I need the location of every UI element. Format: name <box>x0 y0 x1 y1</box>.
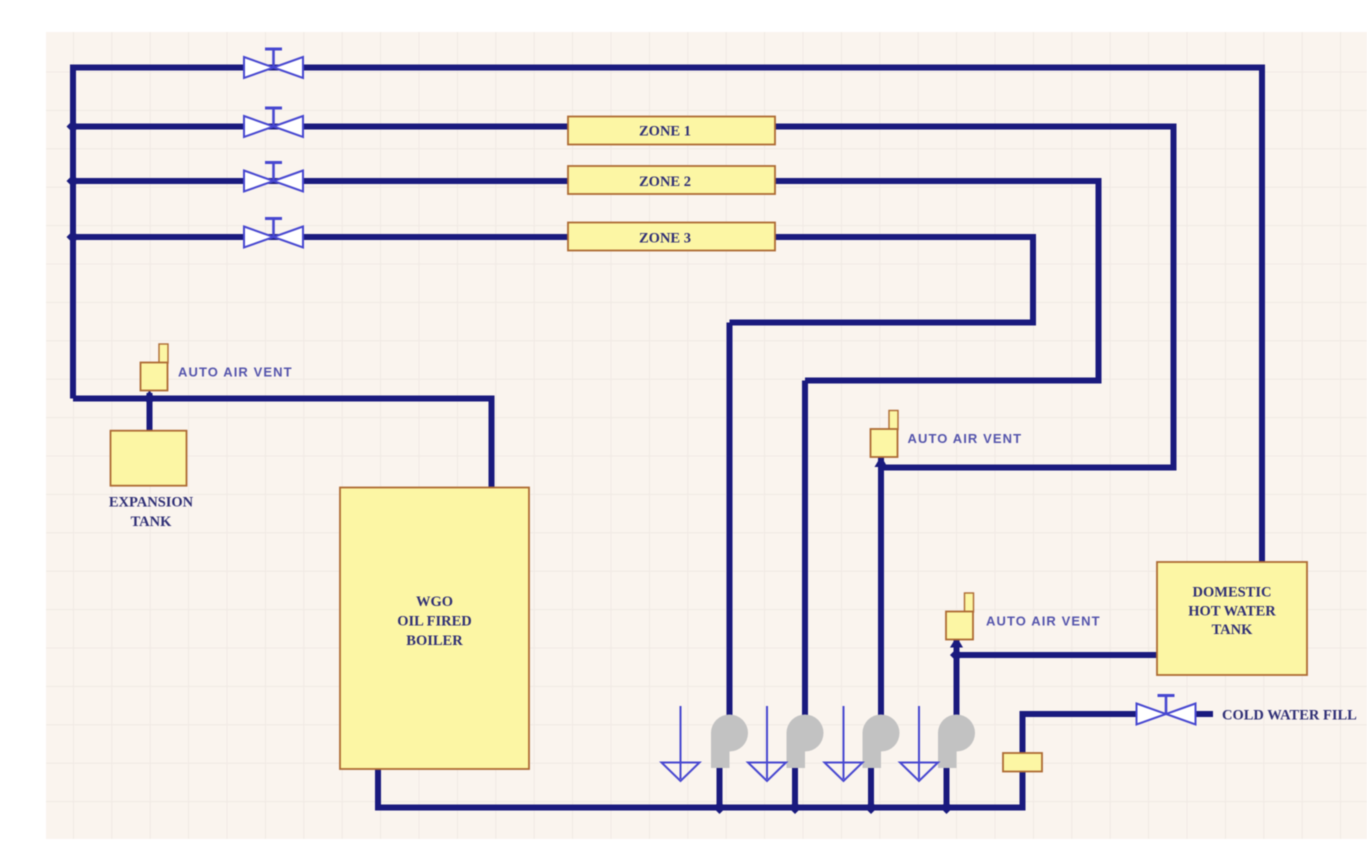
svg-text:EXPANSION: EXPANSION <box>109 495 194 511</box>
wire domestic tank feed <box>957 652 1158 658</box>
wire expansion tank drop <box>147 394 153 431</box>
node header / zone 3 junction <box>67 231 80 244</box>
arrowhead into air vent 2 <box>875 456 888 467</box>
wire boiler supply from header <box>73 399 492 489</box>
wire pump 1 inlet drop <box>727 323 733 719</box>
wire pump 4 inlet drop / air vent 3 riser <box>954 637 960 718</box>
wire pump 2 outlet drop <box>792 768 798 808</box>
pump circulator 3 <box>863 715 900 769</box>
wire pump 4 outlet drop <box>944 768 950 808</box>
svg-text:AUTO AIR VENT: AUTO AIR VENT <box>908 431 1023 446</box>
auto air vent 1 (expansion tank) <box>141 344 293 391</box>
pump circulator 4 <box>938 715 975 769</box>
wire boiler return bus + cold water fill riser <box>378 714 1138 808</box>
pump circulator 1 <box>711 715 748 769</box>
wire pump 1 outlet drop <box>717 768 723 808</box>
flow arrow before pump 1 <box>662 706 700 781</box>
wire zone 3 feed branch <box>73 234 568 240</box>
inline fitting on cold water riser <box>1003 753 1042 772</box>
auto air vent 3 (domestic tank feed) <box>946 593 1101 640</box>
svg-text:AUTO AIR VENT: AUTO AIR VENT <box>986 614 1101 629</box>
wire pump 3 outlet drop <box>868 768 874 808</box>
zone 3 box <box>568 223 775 251</box>
wire zone 3 return <box>730 237 1034 323</box>
valve zone 1 <box>244 108 303 137</box>
wire zone 2 return <box>775 181 1099 381</box>
node air vent 1 / expansion tank junction <box>143 392 156 405</box>
wire zone 2 feed branch <box>73 178 568 184</box>
node header / zone 1 junction <box>67 120 80 133</box>
wire pump 3 inlet drop <box>878 457 884 719</box>
wire main supply header + domestic hot water riser <box>73 68 1262 563</box>
pump circulator 2 <box>787 715 824 769</box>
wire air vent 1 riser <box>147 393 153 399</box>
node tank feed / pump 4 junction <box>950 649 963 662</box>
node pump 4 / bus junction <box>940 801 953 814</box>
wire cold water fill stub <box>1195 711 1213 717</box>
svg-text:ZONE 1: ZONE 1 <box>639 124 691 140</box>
flow arrow before pump 2 <box>748 706 786 781</box>
valve cold water fill <box>1137 696 1196 725</box>
node pump 2 / bus junction <box>789 801 802 814</box>
domestic hot water tank <box>1157 562 1307 675</box>
valve zone 2 <box>244 163 303 192</box>
svg-text:WGO: WGO <box>416 594 453 610</box>
valve main header <box>244 49 303 78</box>
boiler WGO <box>340 488 529 770</box>
svg-text:COLD WATER FILL: COLD WATER FILL <box>1222 708 1357 724</box>
valve zone 3 <box>244 219 303 248</box>
wire zone 1 feed branch <box>73 124 568 130</box>
node pump 3 / bus junction <box>865 801 878 814</box>
arrowhead into air vent 1 <box>143 390 156 401</box>
auto air vent 2 (zone 1 return) <box>871 411 1023 458</box>
flow arrow before pump 4 <box>900 706 938 781</box>
wire zone 1 return <box>775 127 1174 468</box>
arrowhead into air vent 3 <box>950 637 963 648</box>
flow arrow before pump 3 <box>825 706 863 781</box>
zone 1 box <box>568 117 775 145</box>
node header / zone 2 junction <box>67 175 80 188</box>
node pump 1 / bus junction <box>713 801 726 814</box>
svg-text:TANK: TANK <box>131 514 173 530</box>
zone 2 box <box>568 166 775 194</box>
svg-text:AUTO AIR VENT: AUTO AIR VENT <box>178 365 293 380</box>
svg-text:ZONE 2: ZONE 2 <box>639 174 691 190</box>
expansion tank <box>111 431 187 486</box>
svg-text:TANK: TANK <box>1212 622 1254 638</box>
wire pump 2 inlet drop <box>802 381 808 719</box>
svg-text:DOMESTIC: DOMESTIC <box>1193 585 1272 601</box>
svg-text:OIL FIRED: OIL FIRED <box>397 614 472 630</box>
svg-text:BOILER: BOILER <box>406 633 463 649</box>
svg-text:HOT WATER: HOT WATER <box>1188 604 1276 620</box>
svg-text:ZONE 3: ZONE 3 <box>639 231 691 247</box>
